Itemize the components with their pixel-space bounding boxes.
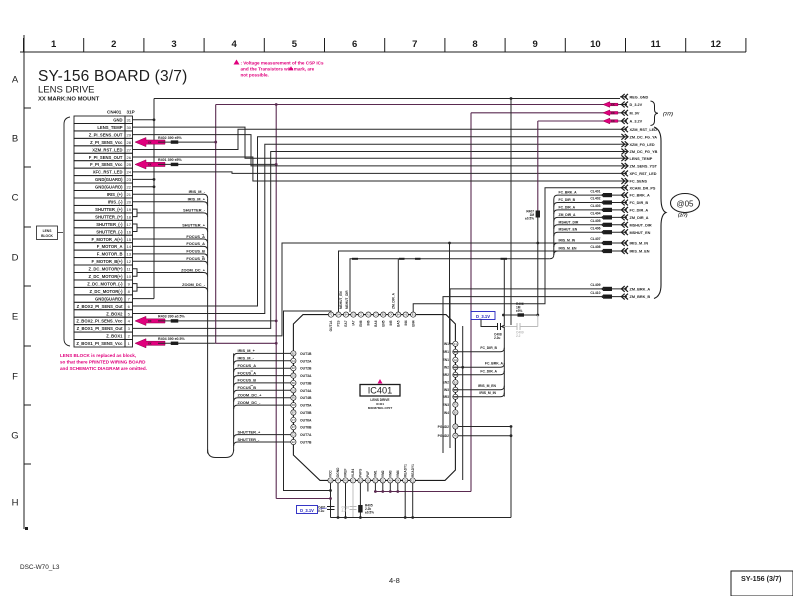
svg-text:11: 11	[651, 39, 662, 50]
no-mount arrow at CN401 pin 4	[135, 316, 165, 325]
svg-text:ZOOM_DC_-: ZOOM_DC_-	[182, 282, 206, 287]
svg-text:PAFS: PAFS	[359, 469, 363, 477]
svg-text:P1S: P1S	[337, 321, 341, 327]
resistor R405	[358, 505, 362, 513]
wire D_3.2V vertical rail x=215.7	[215, 105, 217, 344]
svg-text:5: 5	[292, 39, 298, 50]
connector CN401 pin 18 SHUTTER_(+)	[74, 213, 133, 220]
svg-text:29: 29	[126, 132, 131, 137]
no-mount arrow at CN401 pin 25	[135, 160, 165, 169]
svg-text:FC_DIR_A: FC_DIR_A	[559, 205, 576, 209]
wire pin25 row to R401 to A_3.2V rail	[158, 163, 276, 165]
wire pin4 row to R403	[158, 320, 276, 322]
wire F_MOTOR_B(+) pin12 to bus	[133, 261, 208, 265]
svg-text:Z_DC_MOTOR(-): Z_DC_MOTOR(-)	[90, 289, 124, 294]
wire MSHUT_DIR net from top pin	[350, 259, 550, 312]
junction pin25/A_3.2V	[275, 163, 278, 166]
IC401 top pin OUT1A	[328, 312, 333, 331]
svg-text:REG_GND: REG_GND	[630, 95, 649, 99]
connector CN401 pin 17 SHUTTER_(-)	[74, 220, 133, 227]
svg-text:OUT2B: OUT2B	[300, 367, 312, 371]
svg-text:31P: 31P	[127, 110, 135, 115]
IC401 right pin EN2	[443, 380, 458, 385]
svg-text:ZOOM_DC_-: ZOOM_DC_-	[238, 400, 262, 405]
svg-text:6: 6	[352, 39, 357, 50]
IC401 right pin BR3	[442, 394, 458, 399]
wire GND pin31 to REG_GND bus	[133, 99, 155, 120]
svg-text:MXD87M/G-CP0T: MXD87M/G-CP0T	[368, 406, 393, 410]
wire D_3.1V to C408	[481, 320, 498, 327]
svg-text:EN1: EN1	[443, 358, 450, 362]
svg-text:OUT4A: OUT4A	[300, 389, 312, 393]
svg-text:23: 23	[126, 177, 131, 182]
svg-text:xx: xx	[148, 163, 152, 167]
ruler tick 11	[685, 38, 687, 52]
svg-text:: Voltage measurement of the C: : Voltage measurement of the CSP ICs	[241, 61, 324, 66]
IC401 bottom pin VREF	[343, 468, 348, 483]
svg-text:VCC: VCC	[329, 470, 333, 477]
IC401 left pin OUT4A	[291, 388, 312, 393]
wire VREF pin down	[345, 483, 347, 518]
svg-text:22: 22	[126, 185, 131, 190]
row tick	[24, 166, 31, 168]
connector CN401 pin 9 Z_DC_MOTOR_(-)	[74, 280, 133, 287]
svg-text:IN3: IN3	[444, 388, 449, 392]
svg-text:ZOOM_DC_+: ZOOM_DC_+	[238, 393, 263, 398]
wire R407 down to IRIS_M_IN row	[537, 218, 539, 316]
resistor R402	[171, 140, 179, 143]
junction pin4/A_3.2V	[275, 320, 278, 323]
corner title box SY-156 (3/7)	[731, 571, 793, 596]
svg-text:IRIS_M_IN: IRIS_M_IN	[479, 391, 496, 395]
svg-text:FC_DIR_B: FC_DIR_B	[480, 346, 497, 350]
off-page connector LENS_TEMP	[620, 155, 653, 161]
wire ZM_DIR_A net from top pin	[397, 259, 399, 312]
wire VM1 pin down	[374, 483, 376, 492]
svg-text:PAF: PAF	[366, 471, 370, 477]
svg-text:FOCUS_B: FOCUS_B	[238, 385, 257, 390]
ruler tick 12	[745, 38, 747, 52]
brace signal group	[654, 127, 666, 299]
wire READY1 second pin down to rail	[412, 483, 414, 518]
svg-text:CL401: CL401	[590, 189, 600, 193]
svg-text:SY-156 BOARD (3/7): SY-156 BOARD (3/7)	[38, 68, 187, 85]
svg-text:CL409: CL409	[590, 283, 600, 287]
connector CN401 pin 8 Z_DC_MOTOR(-)	[74, 287, 133, 294]
connector CN401 pin 20 IRIS_(-)	[74, 198, 133, 205]
ruler tick 4	[263, 38, 265, 52]
svg-text:BA6: BA6	[374, 320, 378, 327]
svg-text:FC_BRK_A: FC_BRK_A	[559, 191, 578, 195]
connector CN401 left bracket	[64, 117, 70, 346]
svg-text:15: 15	[126, 237, 131, 242]
svg-text:R402 390 ±5%: R402 390 ±5%	[158, 136, 183, 140]
wire VCC pin down to GND rail	[330, 483, 332, 518]
svg-text:VM4: VM4	[396, 470, 400, 477]
ruler tick 10	[625, 38, 627, 52]
connector CN401 pin 16 SHUTTER_(-)	[74, 228, 133, 235]
svg-text:F_MOTOR_B: F_MOTOR_B	[97, 252, 123, 257]
IC401 top pin BA5	[396, 312, 401, 327]
svg-text:Z_BOX2_PI_SENS_Out: Z_BOX2_PI_SENS_Out	[77, 304, 123, 309]
svg-text:Z_DC_MOTOR(+): Z_DC_MOTOR(+)	[88, 267, 123, 272]
svg-text:OUT7B: OUT7B	[300, 441, 312, 445]
wire PGND2 row2	[458, 435, 511, 437]
no-mount arrow at CN401 pin 1	[135, 339, 165, 348]
svg-text:SHUTTER_-: SHUTTER_-	[183, 208, 206, 213]
wire bus branch FOCUS_B~ to IC	[234, 390, 291, 394]
IC401 bottom pin PAF	[365, 471, 370, 483]
wire FC_DIR_B stub to bus	[453, 348, 505, 352]
svg-text:ZM_DC_FG_YA: ZM_DC_FG_YA	[630, 135, 658, 139]
svg-text:VM2: VM2	[381, 470, 385, 477]
wire PGND drop x=511	[510, 427, 512, 518]
wire bus U-turn bottom	[208, 450, 234, 458]
ruler tick 0	[23, 38, 25, 52]
svg-text:4-8: 4-8	[389, 576, 400, 585]
IC401 right pin PGND2	[438, 433, 458, 438]
connector CN401 pin 3 Z_BOX1_PI_SENS_Out	[74, 325, 133, 332]
row tick	[24, 463, 31, 465]
wire IRIS_M_IN hook from trunk	[554, 243, 558, 247]
off-page connector MSHUT_EN	[590, 226, 650, 235]
svg-text:FOCUS_A: FOCUS_A	[238, 370, 257, 375]
wire R406 row y=315	[503, 314, 537, 316]
svg-text:D_3.1V: D_3.1V	[300, 508, 314, 513]
off-page connector ZM_DC_FG_YB	[620, 149, 658, 155]
wire bus vertical up x=233.6	[233, 353, 235, 451]
wire GND(GUARD) pin7 stub	[133, 298, 155, 300]
svg-text:IRIS_M_IN: IRIS_M_IN	[559, 239, 576, 243]
svg-text:2.2u: 2.2u	[494, 336, 500, 340]
svg-text:IN4: IN4	[444, 411, 449, 415]
bus entry ticks	[352, 258, 358, 260]
wire ZM_DC_FG_YA net	[133, 137, 621, 306]
svg-text:E: E	[12, 312, 18, 323]
off-page connector ZM_DC_FG_YA	[620, 134, 657, 140]
svg-text:IRIS_M_-: IRIS_M_-	[189, 189, 206, 194]
svg-text:ZM_DC_FG_YB: ZM_DC_FG_YB	[630, 150, 658, 154]
resistor R401	[171, 163, 179, 166]
wire pin28 row to R402 to D_3.2V rail	[158, 141, 216, 143]
svg-text:Z_BOX1: Z_BOX1	[106, 334, 123, 339]
connector CN401 pin 26 F_PI_SENS_OUT	[74, 153, 133, 160]
svg-text:±0.5%: ±0.5%	[525, 217, 534, 221]
wire VM4 pin down	[397, 483, 399, 492]
svg-text:R404 390 ±0.5%: R404 390 ±0.5%	[158, 337, 186, 341]
off-page connector IRIS_M_EN	[590, 245, 649, 254]
svg-text:FOCUS_A: FOCUS_A	[186, 241, 205, 246]
power label D_3.1V blue box	[471, 312, 495, 320]
off-page connector A_3.2V	[603, 118, 643, 124]
svg-text:ZM_DIR_A: ZM_DIR_A	[630, 216, 649, 220]
svg-text:D_3.2V: D_3.2V	[630, 103, 643, 107]
svg-text:DGND: DGND	[336, 467, 340, 477]
wire Z_DC_MOTOR pins9+8 merge	[133, 284, 138, 291]
svg-text:F: F	[12, 372, 18, 383]
svg-text:G: G	[11, 431, 18, 442]
svg-text:GND(GUARD): GND(GUARD)	[95, 185, 123, 190]
svg-text:VM3: VM3	[389, 470, 393, 477]
svg-text:SHUTTER_(+): SHUTTER_(+)	[95, 214, 123, 219]
svg-text:21: 21	[126, 192, 131, 197]
wire bus branch SHUTTER_+ to IC	[234, 435, 291, 439]
left border vertical line	[23, 35, 25, 529]
svg-text:CL406: CL406	[590, 226, 600, 230]
svg-text:CN401: CN401	[107, 110, 122, 115]
svg-text:MSHUT_EN: MSHUT_EN	[339, 291, 343, 309]
wire XFC_RST_LED net	[133, 172, 621, 174]
off-page connector ZM_BRK_B	[590, 291, 650, 300]
row tick	[24, 226, 31, 228]
svg-text:Z_BOX2: Z_BOX2	[106, 311, 123, 316]
wire MSHUT_EN / IRIS_M_EN net from top pin	[339, 251, 621, 312]
svg-text:xx: xx	[148, 341, 152, 345]
wire FC_DIR_A stub to bus	[453, 371, 505, 375]
resistor R406 1M	[518, 313, 525, 316]
off-page connector FC_BRK_A	[590, 189, 650, 198]
IC401 reference box	[360, 385, 400, 397]
wire right pin1 riser to IRIS_M_IN row	[450, 243, 453, 344]
wire FC/IRIS bus vertical x=504.3	[503, 259, 505, 397]
wire XZM_FG_LED net	[133, 144, 621, 313]
svg-text:and the Transistors with: and the Transistors with	[241, 67, 294, 72]
svg-text:XZM_FG_LED: XZM_FG_LED	[630, 143, 655, 147]
svg-text:so that there PRINTED WIRING B: so that there PRINTED WIRING BOARD	[60, 360, 146, 365]
svg-text:LENS DRIVE: LENS DRIVE	[38, 85, 95, 96]
svg-text:IRIS_M_EN: IRIS_M_EN	[630, 250, 650, 254]
wire IRIS_(+) pin21 to bus	[133, 194, 208, 198]
ruler tick 8	[504, 38, 506, 52]
svg-text:FOCUS_B: FOCUS_B	[186, 249, 205, 254]
IC401 bottom pin DGND	[335, 467, 340, 483]
wire bus branch IRIS_M_- to IC	[234, 361, 291, 365]
junction purple rails	[275, 342, 278, 345]
IC401 left pin OUT7B	[291, 439, 312, 444]
svg-text:READY1: READY1	[403, 464, 407, 477]
wire LENS BLOCK to connector	[58, 232, 64, 234]
IC401 top pin BA6	[373, 312, 378, 327]
connector CN401 pin 25 F_PI_SENS_Vcc	[74, 161, 133, 168]
svg-text:B: B	[12, 134, 18, 145]
off-page connector XZM_FG_LED	[620, 141, 655, 147]
svg-text:GND(GUARD): GND(GUARD)	[95, 177, 123, 182]
svg-text:CL403: CL403	[590, 204, 600, 208]
page border ruler line	[20, 51, 746, 53]
IC401 left pin OUT3B	[291, 380, 312, 385]
wire M_9V vertical rail x=475	[470, 113, 472, 492]
svg-text:ZM_DIR_A: ZM_DIR_A	[559, 213, 577, 217]
svg-text:FC_BRK_A: FC_BRK_A	[630, 194, 651, 198]
svg-text:READY1: READY1	[411, 464, 415, 477]
svg-text:(7/7): (7/7)	[663, 111, 673, 117]
off-page connector FC_DIR_B	[590, 197, 648, 206]
wire GND vertical bus x=154	[153, 99, 155, 299]
magenta note: voltage measurement warning	[234, 60, 324, 78]
wire bus branch ZOOM_DC_+ to IC	[234, 398, 291, 402]
wire PAF pin to motor rail	[367, 483, 369, 492]
wire READY1 pin down to rail	[404, 483, 406, 518]
connector CN401 pin 24 XFC_RST_LED	[74, 168, 133, 175]
IC401 bottom pin VM1	[373, 470, 378, 483]
IC401 left pin OUT2B	[291, 366, 312, 371]
capacitor C408	[497, 323, 499, 330]
IC401 right pin IN2	[444, 365, 458, 370]
svg-text:±0.5%: ±0.5%	[365, 511, 374, 515]
wire IRIS_M_EN hook from trunk	[554, 251, 558, 255]
svg-text:IA7: IA7	[352, 320, 356, 325]
svg-text:14: 14	[126, 244, 131, 249]
capacitor C401 0.1u	[327, 506, 335, 508]
svg-text:LENS: LENS	[43, 229, 53, 233]
svg-text:xx: xx	[148, 140, 152, 144]
svg-text:±5%: ±5%	[516, 309, 523, 313]
off-page connector FC_DIR_A	[590, 204, 648, 213]
off-page connector IRIS_M_IN	[590, 237, 648, 246]
wire bus branch ZOOM_DC_- to IC	[234, 405, 291, 409]
connector CN401 pin 31 GND	[74, 116, 133, 123]
ruler tick 3	[203, 38, 205, 52]
wire MSHUT_EN hook from trunk	[554, 232, 620, 236]
IC401 bottom pin VCC	[328, 470, 333, 483]
svg-text:and SCHEMATIC DIAGRAM are omit: and SCHEMATIC DIAGRAM are omitted.	[60, 366, 147, 371]
svg-text:IN5: IN5	[389, 320, 393, 325]
connector CN401 pin 7 GND(GUARD)	[74, 295, 133, 302]
svg-text:XCAM_DR_PS: XCAM_DR_PS	[630, 186, 656, 190]
connector CN401 pin 11 Z_DC_MOTOR(+)	[74, 265, 133, 272]
connector CN401 pin 2 Z_BOX1	[74, 332, 133, 339]
wire ZM_DIR_A hook from trunk	[554, 217, 620, 221]
wire F_MOTOR_A(+) pin15 to bus	[133, 239, 208, 243]
junction R407/IRIS_M_IN	[536, 242, 539, 245]
svg-text:9: 9	[533, 39, 538, 50]
svg-text:OUT3B: OUT3B	[300, 381, 312, 385]
svg-text:CL407: CL407	[590, 237, 600, 241]
svg-text:VM1: VM1	[374, 470, 378, 477]
svg-text:CL405: CL405	[590, 219, 600, 223]
IC401 bottom pin READY1	[410, 464, 415, 483]
resistor R404	[171, 342, 179, 345]
wire A_3.2V drop x=537.8 purple	[537, 121, 539, 211]
connector CN401 pin 28 Z_PI_SENS_Vcc	[74, 138, 133, 145]
svg-text:25: 25	[126, 162, 131, 167]
svg-text:OUT3A: OUT3A	[300, 374, 312, 378]
svg-text:Z_BOX2_PI_SENS_Vcc: Z_BOX2_PI_SENS_Vcc	[76, 319, 123, 324]
svg-text:SY-156 (3/7): SY-156 (3/7)	[741, 574, 782, 583]
svg-text:FOCUS_A: FOCUS_A	[238, 363, 257, 368]
ruler tick 9	[564, 38, 566, 52]
svg-text:OUT6B: OUT6B	[300, 426, 312, 430]
svg-text:OUT6A: OUT6A	[300, 418, 312, 422]
svg-text:A: A	[12, 75, 19, 86]
svg-text:GND(GUARD): GND(GUARD)	[95, 296, 123, 301]
waveform reference oval @05	[671, 194, 700, 213]
brace power group (7/7)	[651, 101, 659, 126]
svg-text:FC_DIR_B: FC_DIR_B	[630, 201, 649, 205]
svg-text:8: 8	[472, 39, 477, 50]
svg-text:IRIS_M_EN: IRIS_M_EN	[559, 247, 577, 251]
svg-text:10: 10	[126, 274, 131, 279]
wire ZM_BRK_B net	[443, 297, 620, 453]
svg-text:BLOCK: BLOCK	[41, 234, 53, 238]
connector CN401 pin 23 GND(GUARD)	[74, 176, 133, 183]
svg-text:3: 3	[171, 39, 176, 50]
wire REG_GND horizontal to edge	[154, 98, 620, 100]
connector CN401 pin 21 IRIS_(+)	[74, 191, 133, 198]
wire SHUTTER pins19+18 merge	[133, 209, 138, 216]
wire FC_SENS net	[133, 157, 621, 181]
svg-text:C: C	[12, 193, 19, 204]
ruler tick 1	[83, 38, 85, 52]
svg-text:IRIS_M_EN: IRIS_M_EN	[478, 384, 496, 388]
svg-text:F_MOTOR_A: F_MOTOR_A	[97, 244, 123, 249]
IC401 bottom pin VM4	[395, 470, 400, 483]
wire GND rail bottom	[331, 517, 512, 519]
off-page connector XZM_RST_LED	[620, 126, 657, 132]
svg-text:CL408: CL408	[590, 245, 600, 249]
wire D_3.2V horizontal to edge	[216, 104, 620, 106]
connector CN401 pin 15 F_MOTOR_A(+)	[74, 235, 133, 242]
svg-text:LENS_TEMP: LENS_TEMP	[97, 125, 122, 130]
svg-text:IN4: IN4	[404, 320, 408, 325]
svg-text:FC_DIR_B: FC_DIR_B	[559, 198, 576, 202]
svg-text:IN2: IN2	[444, 366, 449, 370]
svg-text:FC_DIR_A: FC_DIR_A	[630, 209, 649, 213]
ruler tick 7	[444, 38, 446, 52]
no-mount arrow at CN401 pin 28	[135, 137, 165, 146]
svg-text:EN6: EN6	[359, 320, 363, 326]
IC401 left pin OUT5A	[291, 403, 312, 408]
svg-text:1: 1	[51, 39, 57, 50]
connector CN401 pin 5 Z_BOX2	[74, 310, 133, 317]
wire GND(GUARD) pin23 stub	[133, 178, 155, 180]
IC401 right pin PGND2	[438, 424, 458, 429]
svg-text:CL402: CL402	[590, 197, 600, 201]
svg-text:27: 27	[126, 147, 131, 152]
connector CN401 pin 30 LENS_TEMP	[74, 123, 133, 130]
svg-text:0.1u: 0.1u	[318, 509, 324, 513]
svg-text:12: 12	[711, 39, 722, 50]
svg-text:XZM_RST_LED: XZM_RST_LED	[92, 147, 122, 152]
svg-text:OUT7A: OUT7A	[300, 433, 312, 437]
IC401 left pin OUT7A	[291, 432, 312, 437]
connector CN401 pin 19 SHUTTER_(+)	[74, 205, 133, 212]
IC401 top pin P1S	[336, 312, 341, 327]
wire FC_BRK_A stub down	[462, 326, 464, 480]
svg-text:MSHUT_EN: MSHUT_EN	[559, 228, 578, 232]
svg-text:26: 26	[126, 155, 131, 160]
IC401 top pin EN6	[358, 312, 363, 327]
wire MSHUT_DIR hook from trunk	[554, 225, 620, 229]
wire IRIS_M_EN stub to bus	[453, 386, 505, 390]
IC401 right pin IN1	[444, 341, 458, 346]
wire OUT1A to VCC net	[284, 311, 332, 491]
wire PAFS pin down with resistor R405	[359, 483, 361, 518]
svg-text:VLB4: VLB4	[351, 469, 355, 477]
IC401 left pin OUT4B	[291, 395, 312, 400]
svg-text:mark, are: mark, are	[294, 67, 315, 72]
svg-text:IRIS_M_-: IRIS_M_-	[238, 356, 255, 361]
IC401 top pin IN4	[403, 312, 408, 325]
svg-text:Z_PI_SENS_OUT: Z_PI_SENS_OUT	[89, 132, 123, 137]
svg-text:xx: xx	[148, 319, 152, 323]
junction FC_BRK_A	[461, 366, 464, 369]
IC401 bottom pin PAFS	[358, 469, 363, 483]
junction R406 right	[536, 314, 539, 317]
svg-text:Z_BOX1_PI_SENS_Out: Z_BOX1_PI_SENS_Out	[77, 326, 123, 331]
svg-text:F_PI_SENS_Vcc: F_PI_SENS_Vcc	[90, 162, 123, 167]
off-page connector FC_SENS	[620, 178, 647, 184]
